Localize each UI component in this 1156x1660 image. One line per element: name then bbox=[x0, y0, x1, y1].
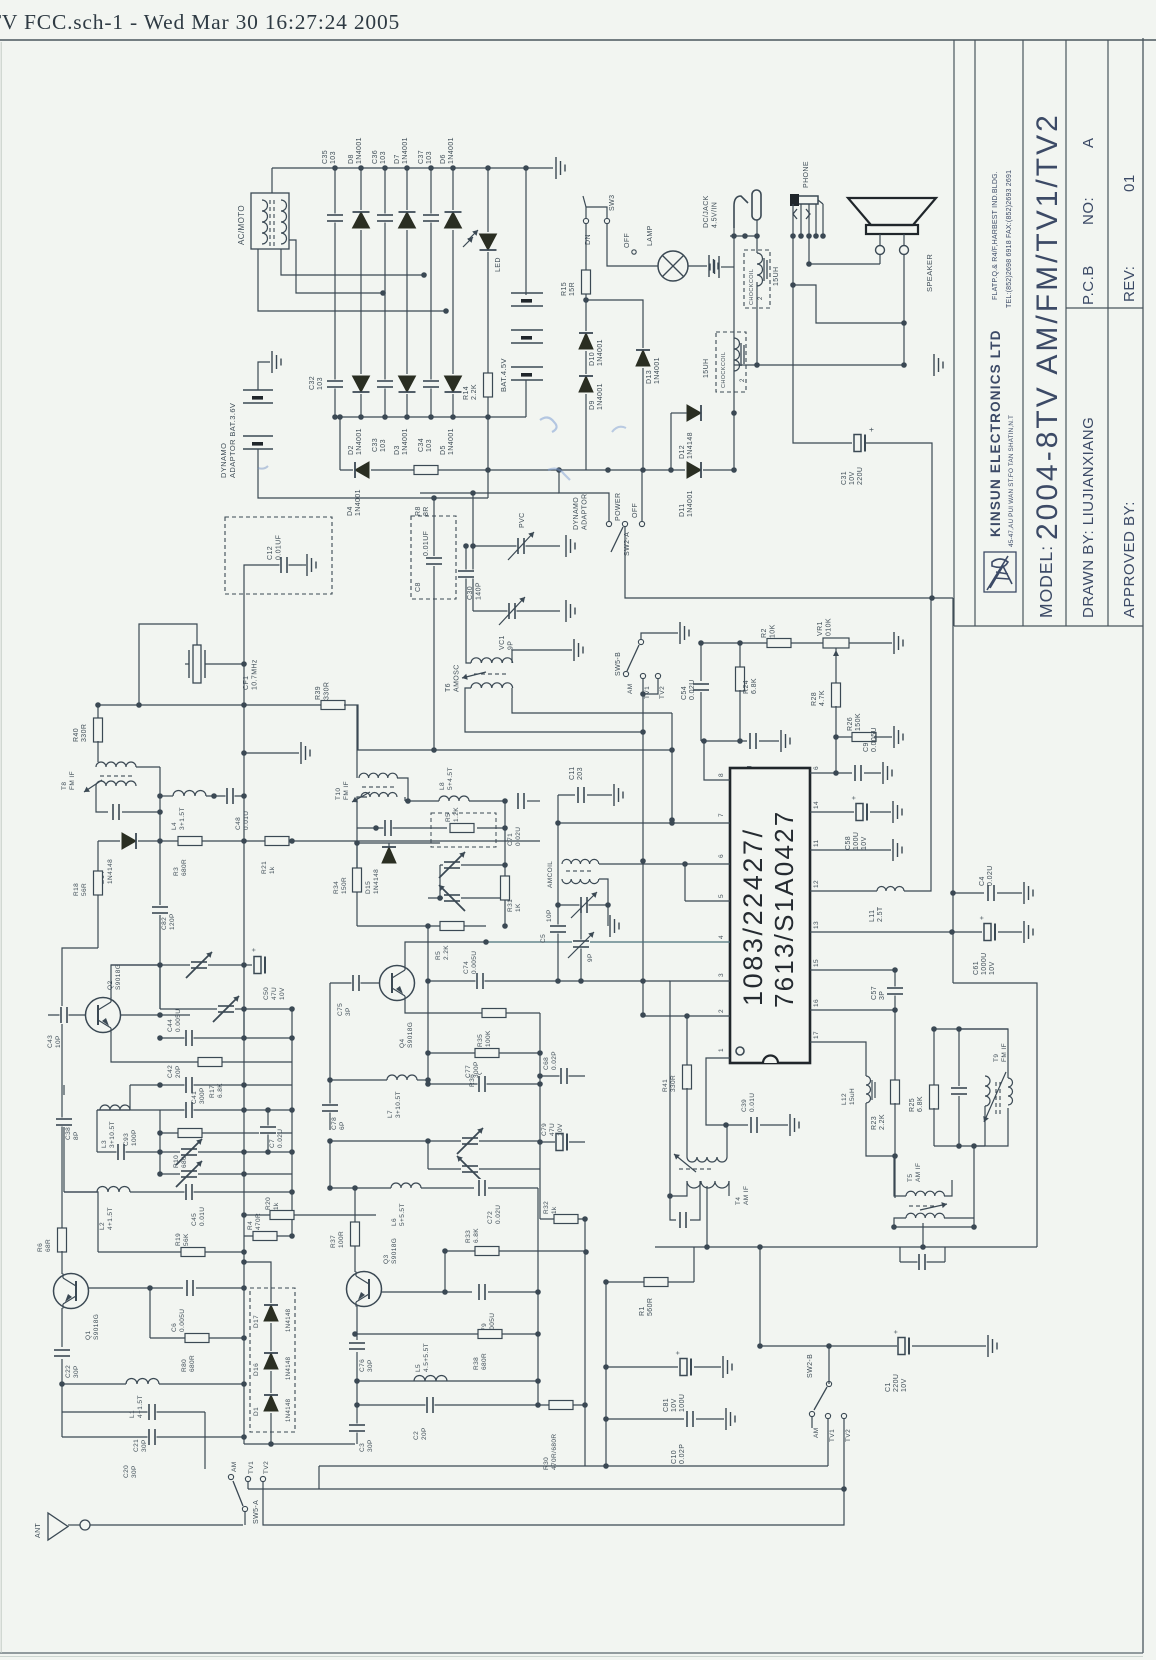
svg-text:C20: C20 bbox=[123, 1465, 130, 1478]
capacitor C34 bottom bbox=[422, 380, 440, 389]
svg-text:D6: D6 bbox=[440, 154, 447, 164]
wire speaker left terminal bbox=[879, 255, 881, 265]
svg-text:14: 14 bbox=[813, 801, 820, 809]
svg-text:CF1: CF1 bbox=[243, 676, 250, 690]
speaker terminals bbox=[876, 246, 885, 255]
capacitor C30 bbox=[465, 546, 467, 655]
svg-text:C7: C7 bbox=[269, 1139, 276, 1148]
wire pin11 to ground bbox=[810, 849, 891, 851]
svg-text:1N4148: 1N4148 bbox=[687, 432, 694, 459]
row A y1381 bbox=[357, 1380, 538, 1382]
sheet bottom border bbox=[0, 1652, 1143, 1654]
capacitor C77 bbox=[428, 1083, 540, 1085]
wire pin8 bbox=[704, 741, 730, 780]
svg-text:C2: C2 bbox=[413, 1431, 420, 1440]
svg-text:9P: 9P bbox=[587, 953, 594, 962]
trimmer AM tune row bbox=[558, 904, 608, 906]
svg-text:D3: D3 bbox=[394, 445, 401, 455]
T4 tuning arrow bbox=[674, 1154, 696, 1172]
wire TV1 down long bbox=[642, 679, 644, 1015]
svg-text:D17: D17 bbox=[253, 1315, 260, 1328]
inductor L7 bbox=[330, 1079, 387, 1081]
diode D11 bbox=[685, 461, 703, 479]
svg-text:0.01UF: 0.01UF bbox=[276, 535, 283, 560]
svg-text:15uH: 15uH bbox=[849, 1088, 856, 1105]
T8 lower left lead bbox=[96, 786, 108, 812]
capacitor C12 dashed box bbox=[225, 517, 332, 594]
wire column D8 bbox=[360, 168, 362, 417]
capacitor C57 bbox=[894, 970, 896, 1010]
capacitor C7 bbox=[267, 1110, 269, 1152]
svg-text:C41: C41 bbox=[191, 1091, 198, 1104]
svg-text:ANT: ANT bbox=[35, 1522, 42, 1538]
resistor R40 bbox=[97, 705, 99, 719]
resistor R26 bbox=[836, 736, 855, 738]
wire SW2-B AM stub bbox=[811, 1417, 813, 1428]
transformer T4 secondary bbox=[687, 1181, 729, 1188]
switch SW2-A contacts bbox=[606, 521, 611, 526]
svg-text:1N4001: 1N4001 bbox=[687, 490, 694, 517]
svg-text:103: 103 bbox=[380, 151, 387, 164]
svg-text:+: + bbox=[675, 1351, 682, 1356]
wire column C36 bbox=[384, 168, 386, 417]
capacitor C31 bbox=[853, 434, 867, 453]
svg-text:KINSUN ELECTRONICS LTD: KINSUN ELECTRONICS LTD bbox=[988, 329, 1003, 537]
svg-text:16: 16 bbox=[813, 999, 820, 1007]
svg-text:470R/680R: 470R/680R bbox=[551, 1434, 558, 1470]
wire Q3 base riser bbox=[444, 1251, 446, 1292]
trimmer q3 1 bbox=[330, 1140, 540, 1142]
svg-text:+: + bbox=[851, 796, 858, 801]
wire x540 riser mid bbox=[539, 1013, 541, 1219]
svg-text:C39: C39 bbox=[741, 1099, 748, 1112]
svg-text:R15: R15 bbox=[561, 282, 568, 296]
wire C39 row bbox=[726, 1124, 748, 1126]
wire x538 riser upper bbox=[537, 1188, 539, 1292]
lamp bbox=[658, 251, 688, 281]
svg-text:C22: C22 bbox=[65, 1365, 72, 1378]
wire L12 bottom bbox=[866, 1103, 895, 1156]
svg-text:1N4001: 1N4001 bbox=[597, 383, 604, 410]
svg-text:4+1.5T: 4+1.5T bbox=[107, 1207, 114, 1230]
svg-text:C93: C93 bbox=[123, 1133, 130, 1146]
svg-text:D16: D16 bbox=[253, 1363, 260, 1376]
phone plug bbox=[792, 196, 818, 204]
svg-text:AM: AM bbox=[813, 1427, 820, 1438]
svg-text:680R: 680R bbox=[181, 859, 188, 876]
svg-text:1N4001: 1N4001 bbox=[597, 339, 604, 366]
svg-text:D4: D4 bbox=[347, 506, 354, 516]
transistor Q2 bbox=[86, 998, 121, 1033]
inductor L6 bbox=[330, 1187, 391, 1189]
svg-text:1K: 1K bbox=[515, 903, 522, 912]
svg-text:140P: 140P bbox=[476, 582, 483, 600]
svg-text:T9: T9 bbox=[993, 1054, 1000, 1062]
ground C61 bbox=[998, 931, 1022, 933]
transformer T6 AMOSC bbox=[471, 658, 513, 663]
chockcoil 2 dashed box bbox=[716, 332, 746, 392]
transformer T9 FM IF bbox=[985, 1076, 990, 1106]
svg-text:C9: C9 bbox=[863, 742, 870, 752]
svg-text:100R: 100R bbox=[338, 1231, 345, 1248]
ground C4 bbox=[997, 892, 1022, 894]
T4 bottom cap bbox=[670, 1196, 676, 1220]
svg-text:C48: C48 bbox=[235, 817, 242, 830]
L12 core bars bbox=[871, 1080, 873, 1100]
capacitor C2 bbox=[426, 1396, 435, 1414]
svg-text:C71: C71 bbox=[507, 833, 514, 846]
wire bus to power contact bbox=[559, 470, 609, 521]
svg-text:1.2K: 1.2K bbox=[453, 807, 460, 822]
capacitor C32 bottom bbox=[326, 380, 344, 389]
svg-text:D15: D15 bbox=[365, 881, 372, 894]
svg-text:+: + bbox=[893, 1330, 900, 1335]
svg-text:D8: D8 bbox=[348, 154, 355, 164]
battery DYNAMO ADAPTOR BAT.3.6V bbox=[243, 389, 273, 391]
svg-text:DYNAMO: DYNAMO bbox=[219, 443, 228, 478]
svg-text:D5: D5 bbox=[440, 445, 447, 455]
wire D4 branch bbox=[339, 417, 341, 470]
wire Q1 base row bbox=[88, 1287, 183, 1289]
capacitor C75 bbox=[330, 982, 380, 984]
capacitor T10 cap bbox=[357, 827, 408, 829]
svg-text:1N4148: 1N4148 bbox=[286, 1398, 292, 1422]
ground SW5-B bbox=[679, 622, 681, 644]
capacitor C45 bbox=[130, 1191, 292, 1193]
ground C39 bbox=[760, 1124, 788, 1126]
AMCOIL lower right lead bbox=[599, 879, 608, 905]
inductor L8 bbox=[404, 797, 406, 801]
diode D9 bbox=[578, 374, 594, 394]
svg-text:C31: C31 bbox=[841, 471, 848, 485]
svg-text:SW5-B: SW5-B bbox=[615, 652, 622, 676]
svg-text:1N4001: 1N4001 bbox=[402, 137, 409, 164]
wiper wire VR1 to R28 bbox=[835, 660, 837, 684]
svg-text:C72: C72 bbox=[487, 1211, 494, 1224]
svg-text:56K: 56K bbox=[183, 1233, 190, 1246]
svg-text:Q4: Q4 bbox=[399, 1039, 406, 1048]
capacitor C79 bbox=[478, 1283, 487, 1301]
capacitor T5 bottom cap bbox=[899, 1247, 901, 1262]
resistor R33 row bbox=[445, 1250, 586, 1252]
resistor R28 bbox=[831, 683, 841, 707]
diode D15 bbox=[357, 842, 440, 844]
wire Q2 collector row bbox=[111, 964, 244, 966]
capacitor C78 bbox=[329, 983, 331, 1130]
sheet right border bbox=[1142, 38, 1144, 1653]
svg-text:LAMP: LAMP bbox=[647, 225, 654, 246]
speaker frame bbox=[866, 225, 918, 234]
wire chain bottom bbox=[270, 1432, 272, 1444]
company logo box bbox=[984, 552, 1016, 592]
inductor L5 bbox=[414, 1376, 447, 1382]
lamp ground wire bbox=[688, 265, 707, 267]
svg-text:R23: R23 bbox=[871, 1116, 878, 1130]
svg-text:VC1: VC1 bbox=[499, 635, 506, 650]
resistor R5 2.2K bbox=[440, 921, 464, 931]
wire pin1 to C39 node bbox=[706, 1058, 730, 1125]
transformer T5 AM IF bbox=[906, 1191, 944, 1196]
svg-text:BAT.4.5V: BAT.4.5V bbox=[499, 358, 508, 392]
capacitor T9 tuning cap bbox=[958, 1029, 960, 1086]
resistor R25 bbox=[933, 1029, 935, 1087]
svg-text:10V: 10V bbox=[279, 987, 286, 1000]
svg-text:5+4.5T: 5+4.5T bbox=[447, 767, 454, 790]
svg-text:6: 6 bbox=[718, 854, 725, 858]
resistor R20 bbox=[244, 1214, 330, 1216]
ground jack branch bbox=[721, 266, 734, 268]
svg-text:103: 103 bbox=[426, 151, 433, 164]
wire transformer lead 2 bbox=[281, 249, 424, 275]
svg-text:FLATP.Q.& R4/F,HARBEST IND.BLD: FLATP.Q.& R4/F,HARBEST IND.BLDG. bbox=[992, 171, 999, 300]
resistor R5 dashed box bbox=[431, 813, 496, 847]
wire C21 branch down bbox=[204, 1412, 206, 1469]
trimmer pair above bbox=[159, 965, 161, 1009]
svg-text:CHOCKCOIL: CHOCKCOIL bbox=[749, 269, 755, 305]
svg-text:10P: 10P bbox=[55, 1035, 62, 1048]
svg-text:L7: L7 bbox=[387, 1110, 394, 1118]
svg-text:1k: 1k bbox=[269, 866, 276, 874]
wire C4 row bbox=[953, 892, 984, 894]
trimmer q3 2 bbox=[428, 1168, 540, 1170]
diode D4 bbox=[353, 461, 371, 479]
svg-text:1N4001: 1N4001 bbox=[448, 137, 455, 164]
svg-text:470R: 470R bbox=[255, 1213, 262, 1230]
title block column line 3 bbox=[1065, 40, 1067, 626]
svg-text:330R: 330R bbox=[324, 682, 331, 700]
transformer AC/MOTO windings bbox=[262, 200, 268, 244]
ground C81 bbox=[694, 1366, 721, 1368]
svg-text:0.005U: 0.005U bbox=[175, 1009, 182, 1032]
svg-text:203: 203 bbox=[577, 767, 584, 780]
svg-text:0.01U: 0.01U bbox=[199, 1207, 206, 1226]
svg-text:DYNAMO: DYNAMO bbox=[573, 497, 580, 530]
resistor R8 bbox=[414, 465, 438, 475]
capacitor C12 bbox=[251, 564, 302, 566]
title block column line 2 bbox=[1022, 40, 1024, 626]
capacitor C43 bbox=[48, 1014, 86, 1016]
dynamo battery bottom wire bbox=[258, 449, 488, 498]
svg-text:T6: T6 bbox=[445, 683, 452, 692]
svg-text:C35: C35 bbox=[322, 150, 329, 164]
inductor L4 bbox=[160, 795, 173, 797]
T5 center tap bbox=[922, 1223, 924, 1247]
capacitor C68 bbox=[540, 1075, 585, 1077]
svg-text:8R: 8R bbox=[423, 506, 430, 516]
battery BAT.4.5V bbox=[525, 168, 527, 295]
svg-text:20P: 20P bbox=[421, 1427, 428, 1440]
logo monogram bbox=[987, 556, 1012, 590]
capacitor C6 bbox=[186, 1279, 195, 1297]
scan smudge 2 bbox=[548, 469, 570, 480]
title block column line 4 bbox=[1107, 40, 1109, 626]
T10 leads bbox=[356, 773, 358, 778]
title block left border bbox=[953, 40, 955, 626]
ground run wire bbox=[734, 364, 904, 366]
svg-text:+: + bbox=[979, 916, 986, 921]
svg-text:R8: R8 bbox=[415, 506, 422, 516]
capacitor C33 bottom bbox=[376, 380, 394, 389]
wire R18 to left riser bbox=[62, 948, 98, 1230]
ground C11 bbox=[587, 794, 612, 796]
wire battery feed riser bbox=[487, 417, 489, 498]
wire row y1489 bbox=[248, 1488, 844, 1490]
svg-text:10V: 10V bbox=[671, 1398, 678, 1412]
wire C1 row bbox=[760, 1345, 897, 1347]
svg-text:R26: R26 bbox=[847, 717, 854, 731]
diode D8 top bbox=[352, 210, 371, 230]
svg-text:FM IF: FM IF bbox=[1001, 1043, 1008, 1062]
diode D3 bottom bbox=[398, 374, 417, 394]
svg-text:R80: R80 bbox=[181, 1359, 188, 1372]
T9 leads bbox=[959, 1029, 1008, 1078]
ground top right bbox=[555, 157, 557, 179]
capacitor C76 bbox=[356, 1306, 358, 1340]
svg-text:C12: C12 bbox=[267, 546, 274, 560]
svg-text:68R: 68R bbox=[45, 1239, 52, 1252]
svg-text:0.005U: 0.005U bbox=[471, 951, 478, 974]
capacitor C79 47U bbox=[540, 1141, 585, 1143]
svg-text:0.02P: 0.02P bbox=[679, 1444, 686, 1464]
svg-text:R19: R19 bbox=[175, 1233, 182, 1246]
scan smudge 1 bbox=[540, 417, 557, 432]
svg-text:+: + bbox=[251, 948, 258, 953]
wire R23 bottom bbox=[894, 1103, 896, 1198]
svg-text:D1: D1 bbox=[253, 1407, 260, 1416]
ground mid bbox=[244, 752, 299, 754]
wire pin12 row bbox=[810, 890, 877, 892]
wire x538 riser bbox=[537, 1292, 539, 1405]
svg-text:1N4148: 1N4148 bbox=[107, 859, 114, 884]
trimmer 9P bbox=[580, 905, 582, 981]
svg-text:0.02U: 0.02U bbox=[495, 1205, 502, 1224]
svg-text:3P: 3P bbox=[345, 1007, 352, 1016]
svg-text:C54: C54 bbox=[681, 686, 688, 700]
ground lamp bbox=[708, 255, 710, 277]
capacitor C71 bbox=[517, 792, 526, 810]
ground VR1 bbox=[893, 632, 895, 654]
svg-text:103: 103 bbox=[317, 377, 324, 390]
svg-text:C3: C3 bbox=[359, 1443, 366, 1452]
svg-text:13: 13 bbox=[813, 921, 820, 929]
svg-text:330R: 330R bbox=[81, 724, 88, 742]
svg-text:1N4148: 1N4148 bbox=[286, 1356, 292, 1380]
resistor R80 bbox=[150, 1337, 244, 1339]
svg-text:C10: C10 bbox=[671, 1450, 678, 1464]
resistor R36 bbox=[428, 1052, 540, 1054]
svg-text:3: 3 bbox=[718, 973, 725, 977]
wire pin4 long bbox=[486, 941, 730, 943]
resistor R34 bbox=[356, 843, 358, 868]
resistor R31 bbox=[504, 801, 506, 876]
ground C9 bbox=[864, 772, 881, 774]
switch SW3 bbox=[583, 218, 588, 223]
wire C11 row bbox=[558, 794, 575, 796]
svg-text:0.005U: 0.005U bbox=[179, 1309, 186, 1332]
wire TV2 jumper bbox=[643, 679, 658, 694]
svg-text:12: 12 bbox=[813, 880, 820, 888]
svg-text:01: 01 bbox=[1121, 174, 1138, 192]
capacitor C21 bbox=[62, 1411, 205, 1413]
ground C58 bbox=[870, 811, 891, 813]
ground C1 bbox=[912, 1345, 986, 1347]
svg-text:R41: R41 bbox=[662, 1079, 669, 1092]
svg-text:R30: R30 bbox=[543, 1457, 550, 1470]
svg-text:4.5V/IN: 4.5V/IN bbox=[712, 202, 719, 228]
resistor R5 1.2K bbox=[450, 823, 474, 833]
wire R25 row top bbox=[934, 1028, 1008, 1030]
svg-text:103: 103 bbox=[330, 151, 337, 164]
svg-text:7613/S1A0427: 7613/S1A0427 bbox=[769, 810, 799, 1008]
svg-text:C43: C43 bbox=[47, 1035, 54, 1048]
svg-text:2004-8TV AM/FM/TV1/TV2: 2004-8TV AM/FM/TV1/TV2 bbox=[1031, 112, 1064, 540]
svg-text:2.2K: 2.2K bbox=[879, 1114, 886, 1130]
svg-text:100K: 100K bbox=[485, 1030, 492, 1047]
wire TV1 contact down bbox=[247, 1482, 249, 1489]
resistor R21 bbox=[265, 836, 289, 846]
resistor R39 bbox=[321, 700, 345, 710]
wire jack to D12 row bbox=[733, 236, 735, 413]
dc jack pin bbox=[752, 190, 761, 220]
diode D1 bbox=[263, 1393, 279, 1413]
svg-text:C75: C75 bbox=[337, 1003, 344, 1016]
svg-text:2.5T: 2.5T bbox=[877, 906, 884, 922]
transistor Q1 bbox=[54, 1274, 89, 1309]
wire speaker right terminal bbox=[903, 255, 905, 324]
svg-text:L5: L5 bbox=[415, 1364, 422, 1372]
svg-text:8P: 8P bbox=[73, 1131, 80, 1140]
svg-text:S9018G: S9018G bbox=[93, 1314, 100, 1340]
svg-text:120P: 120P bbox=[169, 913, 176, 930]
capacitor C54 bbox=[700, 643, 702, 681]
svg-text:L2: L2 bbox=[99, 1222, 106, 1230]
svg-text:R33: R33 bbox=[465, 1230, 472, 1243]
svg-text:3+10.5T: 3+10.5T bbox=[109, 1121, 116, 1148]
resistor R15 bbox=[585, 224, 587, 470]
svg-text:C78: C78 bbox=[331, 1117, 338, 1130]
capacitor C37 top bbox=[422, 214, 440, 223]
svg-text:AC/MOTO: AC/MOTO bbox=[237, 205, 246, 245]
scan edge artifact left bbox=[0, 42, 2, 1653]
transistor Q4 bbox=[380, 966, 415, 1001]
title block column line 1 bbox=[974, 40, 976, 626]
wire y1247 run bbox=[655, 1246, 1037, 1248]
title block row divider bbox=[1066, 307, 1143, 309]
capacitor C74 bbox=[428, 980, 670, 982]
transformer core dashes bbox=[269, 200, 271, 204]
wire pvc branch bbox=[472, 493, 474, 611]
trimmer VC1 bbox=[473, 610, 560, 612]
svg-text:S9018G: S9018G bbox=[391, 1238, 398, 1264]
resistor R1 bbox=[644, 1277, 668, 1287]
svg-text:R31: R31 bbox=[507, 899, 514, 912]
inductor L2 bbox=[64, 1191, 97, 1193]
capacitor C1 bbox=[897, 1337, 911, 1356]
trimmer q4 2 bbox=[428, 897, 505, 899]
svg-text:30P: 30P bbox=[367, 1359, 374, 1372]
svg-text:220U: 220U bbox=[893, 1374, 900, 1392]
chockcoil 2 winding bbox=[734, 338, 740, 371]
svg-text:103: 103 bbox=[380, 439, 387, 452]
svg-text:S9018G: S9018G bbox=[407, 1022, 414, 1048]
wire D12 left leg bbox=[671, 412, 687, 414]
wire L11 to x931 riser bbox=[904, 598, 931, 891]
svg-text:C57: C57 bbox=[871, 986, 878, 1000]
svg-text:R24: R24 bbox=[743, 680, 750, 694]
svg-text:C34: C34 bbox=[418, 438, 425, 452]
inductor L3 bbox=[129, 1085, 131, 1110]
svg-text:SW5-A: SW5-A bbox=[253, 1500, 260, 1524]
